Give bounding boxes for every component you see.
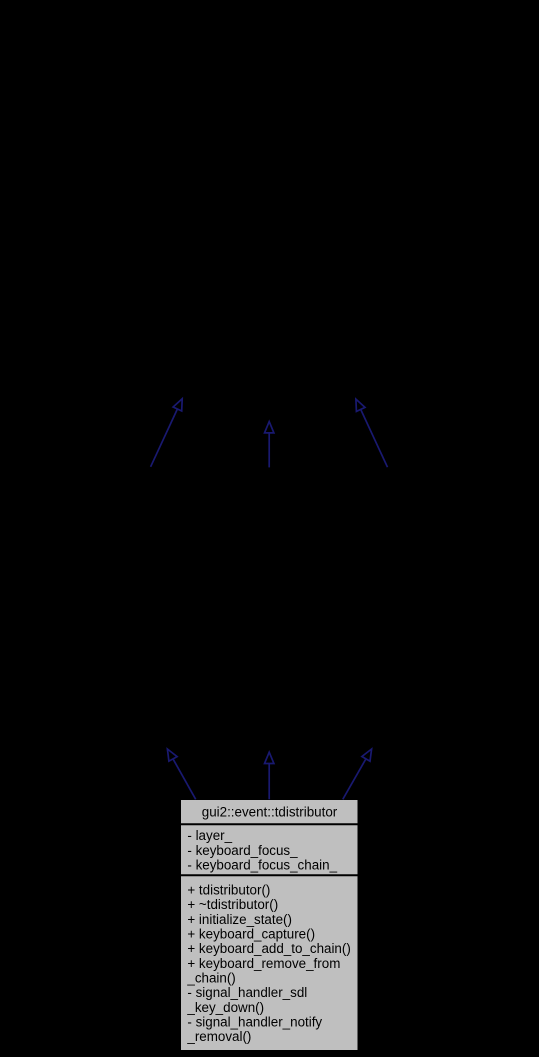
svg-text:- signal_handler_notify: - signal_handler_notify [187, 1015, 322, 1030]
inheritance arrow lower-right [343, 749, 372, 799]
svg-text:+ keyboard_remove_from: + keyboard_remove_from [187, 956, 340, 971]
svg-text:+ ~tdistributor(): + ~tdistributor() [187, 897, 278, 912]
svg-text:+ keyboard_add_to_chain(): + keyboard_add_to_chain() [187, 941, 350, 956]
inheritance arrow lower-middle [265, 752, 274, 799]
svg-text:+ initialize_state(): + initialize_state() [187, 912, 292, 927]
svg-text:_chain(): _chain() [186, 971, 235, 986]
inheritance arrow upper-left [151, 399, 183, 467]
svg-text:- layer_: - layer_ [187, 828, 232, 843]
svg-text:gui2::event::tdistributor: gui2::event::tdistributor [202, 805, 338, 820]
inheritance arrow upper-middle [265, 422, 274, 468]
inheritance arrow upper-right [356, 399, 388, 467]
svg-text:+ keyboard_capture(): + keyboard_capture() [187, 927, 315, 942]
svg-text:- keyboard_focus_: - keyboard_focus_ [187, 843, 298, 858]
svg-text:- keyboard_focus_chain_: - keyboard_focus_chain_ [187, 857, 337, 872]
divider under title [181, 823, 358, 825]
class box gui2::event::tdistributor [181, 800, 358, 1050]
svg-text:_removal(): _removal() [186, 1029, 251, 1044]
svg-text:- signal_handler_sdl: - signal_handler_sdl [187, 985, 307, 1000]
inheritance arrow lower-left [167, 749, 195, 799]
divider under attributes [181, 874, 358, 876]
svg-text:_key_down(): _key_down() [186, 1000, 264, 1015]
svg-text:+ tdistributor(): + tdistributor() [187, 883, 270, 898]
